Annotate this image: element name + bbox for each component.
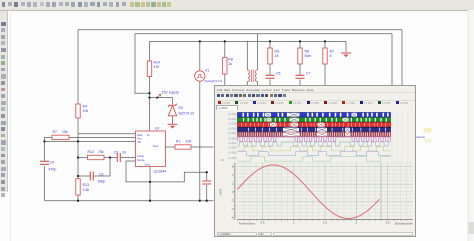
svg-text:R4: R4 [83,105,88,109]
wire V1 branch [199,41,201,200]
svg-text:470p: 470p [49,168,57,172]
wire C6 branch [206,172,208,201]
wire R7 branch [324,41,326,88]
svg-text:U1-D(B): U1-D(B) [228,119,237,121]
wire ground stub right [345,41,347,53]
svg-text:Osc: Osc [137,136,142,140]
svg-text:C4: C4 [50,161,55,165]
step trace blue [237,152,390,156]
svg-text:15V supply: 15V supply [162,91,180,95]
svg-text:Sense: Sense [137,158,145,162]
zener diode D3 [168,104,177,107]
svg-text:Refs: Refs [137,133,143,137]
wire second rail [135,33,392,35]
step trace yellow [237,147,390,151]
wire outer-left vertical to R4 [77,30,79,104]
svg-text:Vp: Vp [147,133,151,137]
capacitor C9 [90,172,93,181]
resistor R3 [268,48,272,64]
svg-text:1: 1 [292,221,294,225]
node dots supply [148,92,150,94]
capacitor C6 [202,181,211,184]
node dots bottom rail [77,200,79,202]
svg-text:3.3k: 3.3k [83,188,90,192]
ground right [341,52,351,54]
wire R13 to rail [77,195,79,201]
transformer L1 [248,70,256,82]
svg-text:V1: V1 [205,69,209,73]
ground under D3 [168,123,178,125]
svg-text:50m: 50m [305,54,312,58]
svg-text:2: 2 [355,221,357,225]
capacitor C2 [117,153,120,162]
resistor R7b [52,135,69,139]
svg-text:mV: mV [220,159,224,162]
digital trace teal toggle [237,142,390,146]
wire C4 branch [44,137,46,200]
resistor R1 [175,145,191,149]
svg-text:Pulse(0 5 0 0: Pulse(0 5 0 0 [205,79,223,83]
svg-text:2.5: 2.5 [385,221,389,225]
wire R3 branch [269,41,271,88]
top toolbar [0,0,474,11]
svg-text:5: 5 [330,54,332,58]
page border / scrollbar [468,10,474,241]
resistor R6 [298,48,302,64]
svg-text:2n: 2n [122,151,126,155]
dashed gridlines [390,111,392,161]
wire R8 branch [224,41,226,88]
bus trace navy [237,127,390,131]
wire chip pin A [78,133,136,135]
x axis [237,219,412,221]
wire sense loop [126,161,207,182]
status bar [215,232,415,237]
op-amp U1 UC3844 [136,131,166,166]
svg-text:U1: U1 [155,127,160,131]
sine trace V(out) [237,165,379,219]
wire comp node vertical [77,141,79,178]
wire gnd pin vertical [149,166,151,200]
svg-text:Gnd: Gnd [145,163,151,167]
svg-text:BZX79-10: BZX79-10 [179,112,195,116]
svg-text:75k: 75k [98,150,104,154]
svg-text:U1-D(B): U1-D(B) [228,128,237,130]
svg-text:V (V): V (V) [218,189,222,196]
node dots top rails [199,40,201,42]
bus trace dark-red barcode [237,131,390,136]
svg-text:R3: R3 [275,50,280,54]
svg-text:Vout: Vout [153,144,159,148]
graph tab [216,105,238,110]
svg-text:U1-D(B): U1-D(B) [228,148,237,150]
resistor R13 [76,179,80,195]
bus trace blue [237,112,390,116]
analog grid [237,163,412,220]
wire 15V supply stub [150,98,173,125]
svg-text:10k: 10k [62,130,68,134]
page left edge [10,10,12,241]
y axis [233,163,235,220]
svg-text:U1-D(B): U1-D(B) [228,114,237,116]
svg-text:R7: R7 [330,50,335,54]
svg-text:UC3844: UC3844 [154,170,167,174]
bus trace green [237,117,390,121]
svg-text:-6: -6 [231,216,234,220]
capacitor C7 [296,75,305,78]
svg-text:R13: R13 [83,183,89,187]
legend row [215,100,415,106]
resistor R12 [88,155,105,159]
wire R14 branch [149,41,151,131]
wire transformer primary lead [246,41,248,88]
svg-text:-4: -4 [231,207,234,211]
svg-text:47k: 47k [154,65,160,69]
capacitor C4 [40,161,49,164]
resistor R14 [147,61,151,77]
plot area [216,110,414,233]
wire top outer rail [78,29,402,31]
wire transformer secondary lead [257,34,259,88]
svg-text:Vfb: Vfb [137,140,142,144]
wire R1 row [166,146,214,148]
svg-text:Time/mSecs: Time/mSecs [238,222,255,226]
svg-text:R14: R14 [154,61,160,65]
waveform viewer window [214,85,416,237]
wire R7b row [45,136,53,138]
wire R6 branch [299,41,301,88]
svg-text:C9: C9 [99,173,104,177]
voltage source V1 [195,71,205,81]
svg-text:U1-D(B): U1-D(B) [228,124,237,126]
digital trace pink comb [237,137,390,141]
resistor R8 [223,58,227,75]
window menu bar [217,88,314,94]
wire R4 to feedback node [77,118,79,141]
svg-text:1k: 1k [228,62,232,66]
svg-text:U1-D(B): U1-D(B) [228,138,237,140]
resistor R7 [323,48,327,64]
left toolbar [0,11,8,192]
svg-text:C7: C7 [306,72,311,76]
svg-text:R12: R12 [88,150,94,154]
svg-text:0: 0 [232,190,234,194]
svg-text:0.5: 0.5 [260,221,264,225]
svg-text:R8: R8 [228,58,233,62]
svg-text:U1-D(B): U1-D(B) [228,143,237,145]
svg-text:C5: C5 [276,72,281,76]
wire outer-right vertical [401,30,403,88]
probe label right of window [424,128,432,133]
svg-text:R6: R6 [305,50,310,54]
svg-text:100: 100 [186,140,192,144]
svg-text:330p: 330p [98,180,106,184]
resistor R4 [76,104,80,118]
svg-text:500uSecs/div: 500uSecs/div [394,222,412,226]
svg-text:U1-D(B): U1-D(B) [228,153,237,155]
svg-text:U1-D(B): U1-D(B) [228,158,237,160]
wire C9 row [78,158,110,177]
data end cursor [379,163,381,220]
svg-text:2: 2 [232,181,234,185]
wire bottom rail [45,200,214,202]
bus trace red [237,122,390,127]
svg-text:1.5: 1.5 [323,221,327,225]
wire R12 row [78,157,136,159]
wire third rail [150,40,347,42]
supply arrow 15V [157,94,161,98]
svg-text:U1-D(B): U1-D(B) [228,133,237,135]
svg-text:R1: R1 [176,140,181,144]
svg-text:1K: 1K [275,54,280,58]
wire second-right vertical [391,34,393,88]
wire second-left vertical [135,34,150,94]
svg-text:10k: 10k [83,109,89,113]
step trace green [237,156,390,161]
svg-text:R7: R7 [53,130,58,134]
svg-text:isense: isense [417,135,426,139]
svg-text:-2: -2 [231,198,234,202]
svg-text:C2: C2 [114,151,119,155]
svg-text:D3: D3 [179,106,184,110]
window toolbar [215,92,415,101]
node dots feedback [43,140,45,142]
svg-text:Comp: Comp [137,154,145,158]
capacitor C5 [266,75,275,78]
wire feedback row [45,140,136,142]
